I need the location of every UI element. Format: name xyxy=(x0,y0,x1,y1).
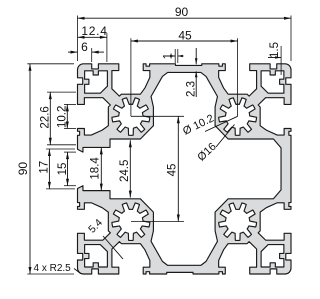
svg-text:15: 15 xyxy=(57,163,69,176)
svg-text:18.4: 18.4 xyxy=(89,157,101,180)
dimension 15 (mouth opening) xyxy=(64,151,76,153)
svg-text:2.3: 2.3 xyxy=(185,81,197,97)
dimension 18.4 (side cavity) xyxy=(100,147,102,190)
dimension 12.4 xyxy=(106,33,108,62)
corner cavity bottom-right xyxy=(261,245,284,267)
dimension 1 (lip width) xyxy=(174,49,176,63)
dimension diameter 16 xyxy=(216,125,235,148)
aluminium extrusion profile 90x90 body outline xyxy=(78,64,292,274)
corner cavity bottom-left xyxy=(85,245,108,267)
dimension 4 x R2.5 (corner radius) xyxy=(74,269,81,274)
svg-text:90: 90 xyxy=(175,5,189,19)
core bore (gear-shaped screw channel) bottom-right xyxy=(219,203,257,240)
svg-text:10.2: 10.2 xyxy=(57,106,69,128)
core bore (gear-shaped screw channel) bottom-left xyxy=(112,203,150,240)
dimension 90 (top overall width) xyxy=(77,16,79,62)
svg-text:17: 17 xyxy=(39,161,51,174)
corner cavity top-right xyxy=(261,71,284,93)
svg-text:12.4: 12.4 xyxy=(81,24,107,38)
dimension 6 xyxy=(91,48,93,62)
dimension diameter 10.2 (core bore) xyxy=(205,116,238,131)
svg-text:22.6: 22.6 xyxy=(39,106,51,128)
dimension 2.3 (plate thickness) xyxy=(195,48,197,64)
dimension 1.5 (top-right lip) xyxy=(280,46,282,75)
svg-text:6: 6 xyxy=(81,40,88,54)
core bore (gear-shaped screw channel) top-left xyxy=(112,98,150,135)
svg-text:45: 45 xyxy=(167,164,179,177)
corner cavity top-left xyxy=(85,71,108,93)
dimension 5.4 (web thickness) xyxy=(103,236,123,259)
svg-text:90: 90 xyxy=(16,162,30,176)
dimension 90 (left overall height) xyxy=(27,63,74,65)
svg-text:45: 45 xyxy=(178,29,192,43)
dimension 22.6 xyxy=(47,91,76,93)
dimension 10.2 (slot opening) xyxy=(64,103,76,105)
svg-text:4 x R2.5: 4 x R2.5 xyxy=(34,263,72,274)
svg-text:24.5: 24.5 xyxy=(119,160,131,182)
dimension 45 (top, slot pitch) xyxy=(130,38,132,116)
dimension 45 (vertical, slot pitch) xyxy=(131,115,184,117)
svg-text:1: 1 xyxy=(163,53,175,59)
svg-text:1.5: 1.5 xyxy=(269,42,281,58)
dimension 17 xyxy=(46,148,75,150)
core bore (gear-shaped screw channel) top-right xyxy=(219,98,257,135)
dimension 24.5 (bay width) xyxy=(129,140,131,197)
